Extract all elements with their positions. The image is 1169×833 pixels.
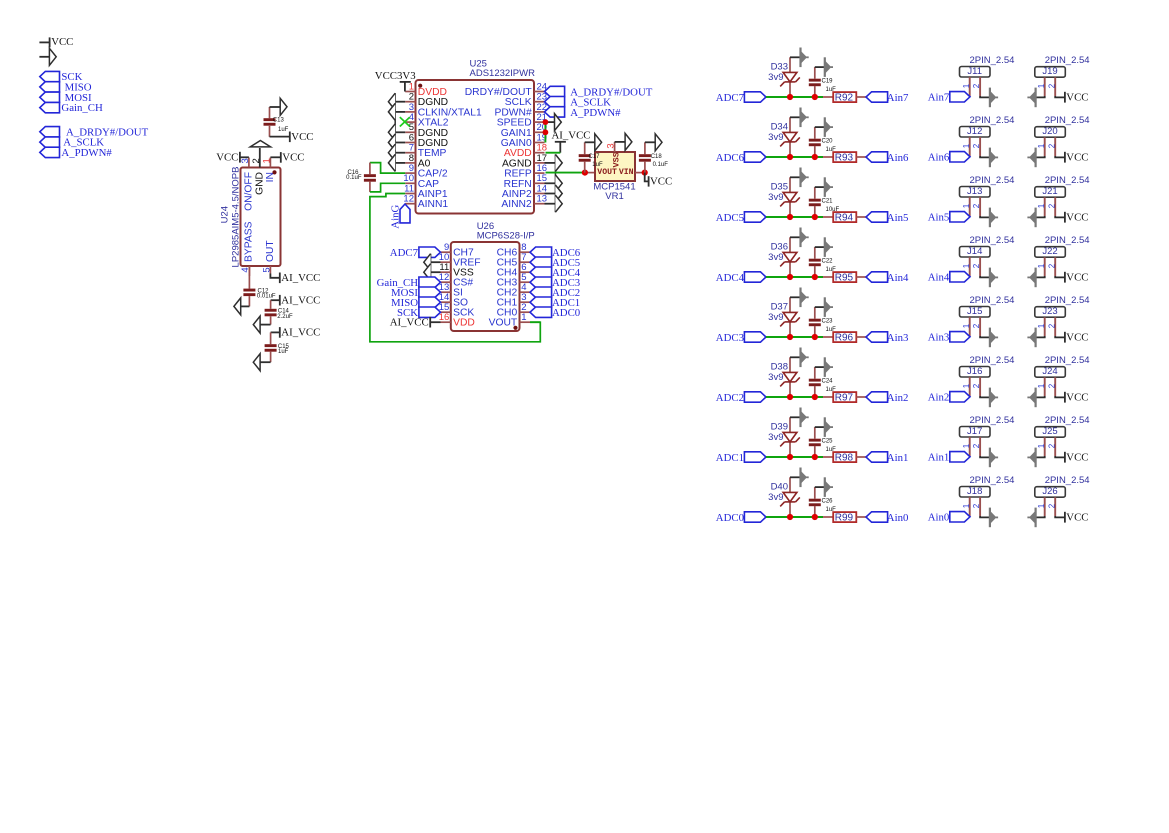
gnd arrow (diode) <box>801 108 809 128</box>
svg-text:J20: J20 <box>1042 126 1057 137</box>
svg-text:1: 1 <box>962 203 971 208</box>
U26 pin 8 CH6 <box>520 251 531 253</box>
U25 pin 2 DGND <box>405 101 415 103</box>
resistor R92 <box>833 92 856 102</box>
gnd arrow (diode) <box>801 228 809 248</box>
svg-text:VCC: VCC <box>282 152 304 164</box>
svg-text:Ain6: Ain6 <box>887 152 909 164</box>
svg-text:0.1uF: 0.1uF <box>346 175 362 181</box>
gnd arrow <box>1027 328 1035 348</box>
IC U25 ADS1232IPWR body <box>416 80 535 214</box>
svg-text:D35: D35 <box>771 182 788 193</box>
J16 pin 1 <box>969 377 971 397</box>
svg-text:D40: D40 <box>771 482 788 493</box>
svg-text:VCC: VCC <box>1066 452 1088 464</box>
svg-text:LP2985AIM5-4.5/NOPB: LP2985AIM5-4.5/NOPB <box>230 167 241 268</box>
connector J15 2PIN_2.54 <box>960 307 991 318</box>
VR1 pin 1 VIN wire <box>635 172 645 174</box>
hier label A_PDWN# <box>545 107 565 117</box>
svg-text:3v9: 3v9 <box>768 192 783 203</box>
svg-text:ADC7: ADC7 <box>716 92 745 104</box>
svg-text:VCC: VCC <box>1066 512 1088 524</box>
U26 pin 7 CH5 <box>520 261 531 263</box>
wire AINP1 to U26 VOUT loop <box>370 194 540 342</box>
wire <box>1036 396 1045 397</box>
wire <box>1055 216 1065 217</box>
wire <box>815 366 825 368</box>
U26 pin 6 CH4 <box>520 271 531 273</box>
sheet pin MISO <box>40 82 60 92</box>
junction VOUT <box>582 170 588 176</box>
svg-text:VIN: VIN <box>619 168 634 177</box>
junction <box>787 514 793 520</box>
svg-text:R95: R95 <box>835 273 854 284</box>
junction <box>787 154 793 160</box>
U26 pin 12 CS# <box>441 281 451 283</box>
capacitor C19 1uF <box>814 67 816 79</box>
J20 pin 2 <box>1054 137 1056 156</box>
wire SPEED/GAIN1/GAIN0 tie <box>544 122 546 142</box>
svg-text:OUT: OUT <box>265 240 276 262</box>
U26 pin 16 VDD <box>441 321 451 323</box>
connector J14 2PIN_2.54 <box>960 247 991 258</box>
hier label ADC3 <box>744 332 766 342</box>
power arrow (C17) <box>595 134 602 151</box>
J25 pin 2 <box>1054 437 1056 456</box>
svg-text:C23: C23 <box>822 319 834 325</box>
svg-text:3v9: 3v9 <box>768 72 783 83</box>
gnd arrow <box>1027 88 1035 108</box>
gnd arrow <box>1027 508 1035 528</box>
capacitor C18 <box>644 142 646 154</box>
U26 pin 11 VSS <box>441 271 451 273</box>
svg-text:D39: D39 <box>771 422 788 433</box>
power label VCC <box>1064 152 1066 163</box>
U26 pin 3 CH1 <box>520 301 531 303</box>
power label VCC (below C13) <box>289 132 291 143</box>
svg-text:2: 2 <box>1047 143 1056 148</box>
U25 pin 6 DGND <box>405 142 415 144</box>
sheet pin Gain_CH <box>40 102 60 112</box>
resistor R93 <box>833 152 856 162</box>
U26 pin 13 SI <box>441 291 451 293</box>
wire <box>766 516 823 518</box>
diode D34 zener 3v9 <box>789 142 791 157</box>
wire <box>1055 396 1065 397</box>
svg-text:J12: J12 <box>967 126 982 137</box>
svg-text:J26: J26 <box>1042 486 1057 497</box>
svg-text:2: 2 <box>1047 203 1056 208</box>
gnd arrows U25 right pins <box>545 162 556 164</box>
wire <box>815 186 825 188</box>
hier label Ain2 <box>866 392 888 402</box>
wire <box>980 216 990 217</box>
capacitor C12 <box>248 266 250 289</box>
gnd arrow (diode) <box>801 288 809 308</box>
wire <box>1036 216 1045 217</box>
svg-text:J24: J24 <box>1042 366 1057 377</box>
svg-text:2PIN_2.54: 2PIN_2.54 <box>970 295 1015 306</box>
svg-text:VCC: VCC <box>291 131 313 143</box>
dark dot U25 <box>418 84 422 88</box>
power arrow (SPEED) <box>555 114 562 131</box>
gnd arrow <box>990 208 998 228</box>
junction <box>787 274 793 280</box>
svg-text:J19: J19 <box>1042 66 1057 77</box>
svg-text:2: 2 <box>251 158 262 163</box>
svg-text:C18: C18 <box>651 154 663 160</box>
hier label ADC0 <box>744 512 766 522</box>
power label AI_VCC (C15 top) <box>271 331 280 333</box>
svg-text:J23: J23 <box>1042 306 1057 317</box>
connector J23 2PIN_2.54 <box>1035 307 1066 318</box>
svg-text:Ain5: Ain5 <box>887 212 909 224</box>
U25 pin 12 AINN1 <box>405 203 415 205</box>
wire <box>790 416 801 418</box>
svg-text:2PIN_2.54: 2PIN_2.54 <box>1045 355 1090 366</box>
gnd arrow <box>990 448 998 468</box>
svg-text:Ain0: Ain0 <box>887 512 909 524</box>
junction <box>812 514 818 520</box>
hier label Ain4 <box>866 272 888 282</box>
U25 pin 1 DVDD <box>405 91 415 93</box>
wire <box>790 236 801 238</box>
J24 pin 2 <box>1054 377 1056 396</box>
gnd arrow <box>990 148 998 168</box>
U26 pin 9 CH7 <box>441 251 451 253</box>
gnd arrow <box>990 88 998 108</box>
wire <box>790 56 801 58</box>
dark dot U26 <box>513 326 517 330</box>
hier label ADC7 <box>744 92 766 102</box>
power label VCC (VIN) <box>645 173 649 182</box>
svg-text:2PIN_2.54: 2PIN_2.54 <box>1045 235 1090 246</box>
wire <box>1055 336 1065 337</box>
junction <box>812 334 818 340</box>
power label AI_VCC (C14 top) <box>271 299 280 301</box>
J18 pin 1 <box>969 497 971 517</box>
hier label ADC2 <box>744 392 766 402</box>
capacitor C16 <box>370 163 405 174</box>
VR1 pin 3 VSS <box>614 142 616 152</box>
J12 pin 2 <box>979 137 981 156</box>
U25 pin 17 AGND <box>534 162 545 164</box>
svg-text:C22: C22 <box>822 259 834 265</box>
gnd arrow (cap) <box>825 477 833 497</box>
J13 pin 2 <box>979 197 981 216</box>
wire <box>766 156 823 158</box>
svg-text:Ain3: Ain3 <box>887 332 909 344</box>
wire <box>645 141 655 143</box>
hier label Ain3 (J15) <box>950 332 970 342</box>
connector J25 2PIN_2.54 <box>1035 427 1066 438</box>
capacitor C22 1uF <box>814 247 816 259</box>
J13 pin 1 <box>969 197 971 217</box>
svg-text:2: 2 <box>972 383 981 388</box>
svg-text:C21: C21 <box>822 199 834 205</box>
svg-text:Ain1: Ain1 <box>887 452 909 464</box>
hier label Ain6 <box>866 152 888 162</box>
svg-text:ADC7: ADC7 <box>390 247 419 259</box>
svg-text:2: 2 <box>1047 383 1056 388</box>
hier label Ain3 <box>866 332 888 342</box>
junction <box>787 214 793 220</box>
svg-text:1: 1 <box>1037 323 1046 328</box>
U25 pin 21 SPEED <box>534 121 545 123</box>
svg-text:J18: J18 <box>967 486 982 497</box>
junction (pin21) <box>543 119 549 125</box>
hier label Ain2 (J16) <box>950 392 970 402</box>
U26 pin 5 CH3 <box>520 281 531 283</box>
svg-text:ADC0: ADC0 <box>552 307 580 319</box>
power arrow (C18) <box>655 134 662 151</box>
svg-text:VOUT: VOUT <box>597 168 617 177</box>
gnd arrow <box>990 508 998 528</box>
U25 pin 9 CAP/2 <box>405 172 415 174</box>
svg-text:1: 1 <box>962 143 971 148</box>
power arrow symbol <box>39 56 49 58</box>
svg-text:VCC: VCC <box>650 176 672 188</box>
wire <box>790 476 801 478</box>
U26 pin 10 VREF <box>441 261 451 263</box>
hier label AinG <box>400 204 410 223</box>
power label VCC <box>1064 272 1066 283</box>
svg-text:VCC: VCC <box>1066 272 1088 284</box>
sheet pin SCK <box>40 71 60 81</box>
svg-text:2: 2 <box>1047 323 1056 328</box>
gnd arrow (diode) <box>801 408 809 428</box>
gnd arrow <box>1027 208 1035 228</box>
wire <box>1036 336 1045 337</box>
hier label A_DRDY#/DOUT <box>545 86 565 96</box>
gnd arrow (cap) <box>825 177 833 197</box>
svg-text:ADC5: ADC5 <box>716 212 744 224</box>
svg-text:2: 2 <box>1047 443 1056 448</box>
J23 pin 1 <box>1044 317 1046 336</box>
power label VCC <box>1064 92 1066 103</box>
U25 pin 7 TEMP <box>405 152 415 154</box>
power label VCC <box>1064 392 1066 403</box>
capacitor C26 1uF <box>814 487 816 499</box>
no-connect X on XTAL2 <box>400 117 410 126</box>
svg-text:1: 1 <box>962 263 971 268</box>
svg-text:J15: J15 <box>967 306 982 317</box>
svg-text:Ain5: Ain5 <box>928 212 950 224</box>
svg-text:1: 1 <box>1037 83 1046 88</box>
wire <box>856 516 866 518</box>
connector J17 2PIN_2.54 <box>960 427 991 438</box>
J14 pin 1 <box>969 257 971 277</box>
junction <box>812 274 818 280</box>
hier label Ain0 <box>866 512 888 522</box>
svg-text:J14: J14 <box>967 246 982 257</box>
svg-text:VCC: VCC <box>216 152 238 164</box>
svg-text:1: 1 <box>1037 503 1046 508</box>
wire <box>856 336 866 338</box>
svg-text:2: 2 <box>972 203 981 208</box>
svg-text:2PIN_2.54: 2PIN_2.54 <box>1045 295 1090 306</box>
svg-text:1uF: 1uF <box>278 349 289 355</box>
U25 pin 22 PDWN# <box>534 111 545 113</box>
svg-text:GND: GND <box>254 172 265 195</box>
svg-text:VSS: VSS <box>611 152 621 167</box>
gnd arrows U25 left pins <box>395 101 405 103</box>
svg-text:2: 2 <box>972 83 981 88</box>
svg-text:1uF: 1uF <box>278 127 289 133</box>
wire <box>980 96 990 97</box>
power arrow (VSS) <box>625 133 632 150</box>
svg-text:3v9: 3v9 <box>768 312 783 323</box>
svg-text:R98: R98 <box>835 453 854 464</box>
wire <box>1055 156 1065 157</box>
svg-text:0.01uF: 0.01uF <box>257 294 276 300</box>
junction <box>812 394 818 400</box>
svg-text:2: 2 <box>1047 503 1056 508</box>
wire <box>766 96 823 98</box>
svg-text:R94: R94 <box>835 213 854 224</box>
gnd arrow <box>1027 268 1035 288</box>
junction <box>812 94 818 100</box>
wire <box>1036 96 1045 97</box>
svg-text:ADC2: ADC2 <box>716 392 744 404</box>
power arrow above C13 <box>280 98 287 115</box>
resistor R97 <box>833 392 856 402</box>
J15 pin 2 <box>979 317 981 336</box>
wire VOUT stub green <box>530 321 540 323</box>
sheet pin A_DRDY#/DOUT <box>40 127 60 137</box>
svg-text:2PIN_2.54: 2PIN_2.54 <box>970 475 1015 486</box>
svg-text:AI_VCC: AI_VCC <box>281 327 320 339</box>
svg-text:J17: J17 <box>967 426 982 437</box>
gnd arrow <box>990 328 998 348</box>
diode D40 zener 3v9 <box>789 502 791 517</box>
junction VIN <box>642 170 648 176</box>
svg-text:AI_VCC: AI_VCC <box>552 130 591 142</box>
resistor R95 <box>833 272 856 282</box>
connector J11 2PIN_2.54 <box>960 67 991 78</box>
hier label ADC5 <box>744 212 766 222</box>
gnd arrow (diode) <box>801 348 809 368</box>
sheet pin A_PDWN# <box>40 147 60 157</box>
svg-text:ADC1: ADC1 <box>716 452 744 464</box>
wire <box>856 216 866 218</box>
svg-text:Ain1: Ain1 <box>928 452 950 464</box>
svg-text:1: 1 <box>962 323 971 328</box>
power label VCC <box>1064 332 1066 343</box>
svg-text:Ain6: Ain6 <box>928 152 950 164</box>
junction <box>812 214 818 220</box>
junction <box>787 94 793 100</box>
hier label ADC3 (U26) <box>530 277 552 287</box>
wire <box>856 276 866 278</box>
svg-text:1: 1 <box>521 312 526 323</box>
J26 pin 1 <box>1044 497 1046 516</box>
U26 pin 15 SCK <box>441 311 451 313</box>
svg-text:1: 1 <box>1037 143 1046 148</box>
svg-text:2PIN_2.54: 2PIN_2.54 <box>970 115 1015 126</box>
J24 pin 1 <box>1044 377 1046 396</box>
svg-text:2PIN_2.54: 2PIN_2.54 <box>970 175 1015 186</box>
wire <box>241 305 250 307</box>
svg-text:D38: D38 <box>771 362 788 373</box>
svg-text:C20: C20 <box>822 139 834 145</box>
svg-text:C26: C26 <box>822 499 834 505</box>
svg-text:3v9: 3v9 <box>768 132 783 143</box>
svg-text:2: 2 <box>1047 83 1056 88</box>
svg-text:J11: J11 <box>967 66 982 77</box>
wire <box>766 336 823 338</box>
J11 pin 2 <box>979 77 981 96</box>
junction <box>787 394 793 400</box>
svg-text:VOUT: VOUT <box>489 318 518 329</box>
U24 pin 5 OUT <box>269 266 271 274</box>
svg-text:AI_VCC: AI_VCC <box>281 295 320 307</box>
svg-text:1: 1 <box>962 83 971 88</box>
power label VCC (U24 pin1) <box>270 156 280 158</box>
gnd arrows U26 VREF/VSS <box>431 261 441 263</box>
wire <box>1036 156 1045 157</box>
wire <box>1036 456 1045 457</box>
gnd arrow <box>990 268 998 288</box>
J17 pin 1 <box>969 437 971 457</box>
svg-text:BYPASS: BYPASS <box>243 221 254 262</box>
svg-text:ON/OFF: ON/OFF <box>243 172 254 211</box>
svg-text:J21: J21 <box>1042 186 1057 197</box>
J18 pin 2 <box>979 497 981 516</box>
gnd arrow <box>1027 148 1035 168</box>
svg-text:1: 1 <box>962 443 971 448</box>
svg-text:3v9: 3v9 <box>768 432 783 443</box>
svg-text:R92: R92 <box>835 93 854 104</box>
capacitor C20 1uF <box>814 127 816 139</box>
svg-text:3v9: 3v9 <box>768 492 783 503</box>
svg-text:2PIN_2.54: 2PIN_2.54 <box>970 235 1015 246</box>
wire <box>1055 276 1065 277</box>
hier label Ain7 <box>866 92 888 102</box>
svg-text:C19: C19 <box>822 79 834 85</box>
svg-text:2PIN_2.54: 2PIN_2.54 <box>1045 55 1090 66</box>
svg-text:2: 2 <box>972 503 981 508</box>
capacitor C23 1uF <box>814 307 816 319</box>
wire <box>856 396 866 398</box>
hier label ADC6 (U26) <box>530 247 552 257</box>
J11 pin 1 <box>969 77 971 97</box>
U25 pin 5 DGND <box>405 131 415 133</box>
gnd arrow (diode) <box>801 48 809 68</box>
J16 pin 2 <box>979 377 981 396</box>
junction <box>812 154 818 160</box>
svg-text:1: 1 <box>1037 383 1046 388</box>
junction (pin20) <box>543 129 549 135</box>
svg-text:2.2uF: 2.2uF <box>277 314 293 320</box>
gnd arrow (cap) <box>825 357 833 377</box>
svg-text:VDD: VDD <box>453 318 475 329</box>
power label VCC (U24 pin3) <box>240 156 249 158</box>
svg-text:U24: U24 <box>220 206 231 223</box>
connector J13 2PIN_2.54 <box>960 187 991 198</box>
svg-text:3: 3 <box>240 158 251 163</box>
svg-text:Ain0: Ain0 <box>928 512 950 524</box>
hier label ADC2 (U26) <box>530 287 552 297</box>
svg-text:Ain7: Ain7 <box>887 92 909 104</box>
svg-text:MCP6S28-I/P: MCP6S28-I/P <box>477 230 535 241</box>
hier label MISO (U26) <box>419 297 441 307</box>
svg-text:Gain_CH: Gain_CH <box>61 102 103 114</box>
svg-text:2PIN_2.54: 2PIN_2.54 <box>970 415 1015 426</box>
wire <box>790 296 801 298</box>
wire <box>1036 276 1045 277</box>
svg-text:J25: J25 <box>1042 426 1057 437</box>
